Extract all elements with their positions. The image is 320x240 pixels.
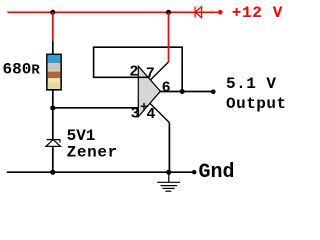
wire ground rail <box>7 171 194 173</box>
node +12V terminal dot <box>218 10 223 15</box>
wire top +12V rail <box>7 11 218 13</box>
node junction top-right <box>166 10 171 15</box>
svg-text:+12 V: +12 V <box>232 4 283 22</box>
diode D1 <box>195 7 202 18</box>
wire pin4 to ground <box>150 103 169 122</box>
wire pin2 input (feedback) <box>94 47 183 91</box>
wire red drop to resistor <box>52 12 54 41</box>
node feedback junction <box>180 89 185 94</box>
svg-text:Output: Output <box>226 95 287 113</box>
node output terminal dot <box>211 89 216 94</box>
node zener junction <box>50 105 55 110</box>
svg-text:7: 7 <box>146 65 155 82</box>
zener diode D2 5V1 <box>46 140 61 147</box>
svg-text:Zener: Zener <box>67 144 118 162</box>
wire resistor bottom lead <box>52 90 54 108</box>
op-amp U1 <box>138 66 160 117</box>
wire resistor top lead <box>52 41 54 55</box>
ground symbol <box>157 172 180 191</box>
node Gnd terminal dot <box>192 170 196 174</box>
svg-text:4: 4 <box>146 106 155 123</box>
wire pin3 input <box>53 107 139 109</box>
node junction opamp-gnd <box>166 170 171 175</box>
resistor R1 680R <box>47 54 61 89</box>
wire pin6 output <box>160 91 213 93</box>
node junction zener-gnd <box>50 170 55 175</box>
node junction top-left <box>50 10 55 15</box>
svg-text:Gnd: Gnd <box>199 161 235 184</box>
op-amp plus sign <box>141 103 148 110</box>
wire junction to zener <box>52 108 54 140</box>
wire pin7 to +12V rail <box>151 62 169 80</box>
svg-text:2: 2 <box>129 64 138 81</box>
svg-text:5.1 V: 5.1 V <box>226 75 277 93</box>
svg-text:6: 6 <box>162 80 171 97</box>
wire zener to ground rail <box>52 146 54 172</box>
svg-text:680R: 680R <box>3 61 41 79</box>
svg-text:5V1: 5V1 <box>67 127 96 145</box>
svg-text:3: 3 <box>131 105 140 122</box>
